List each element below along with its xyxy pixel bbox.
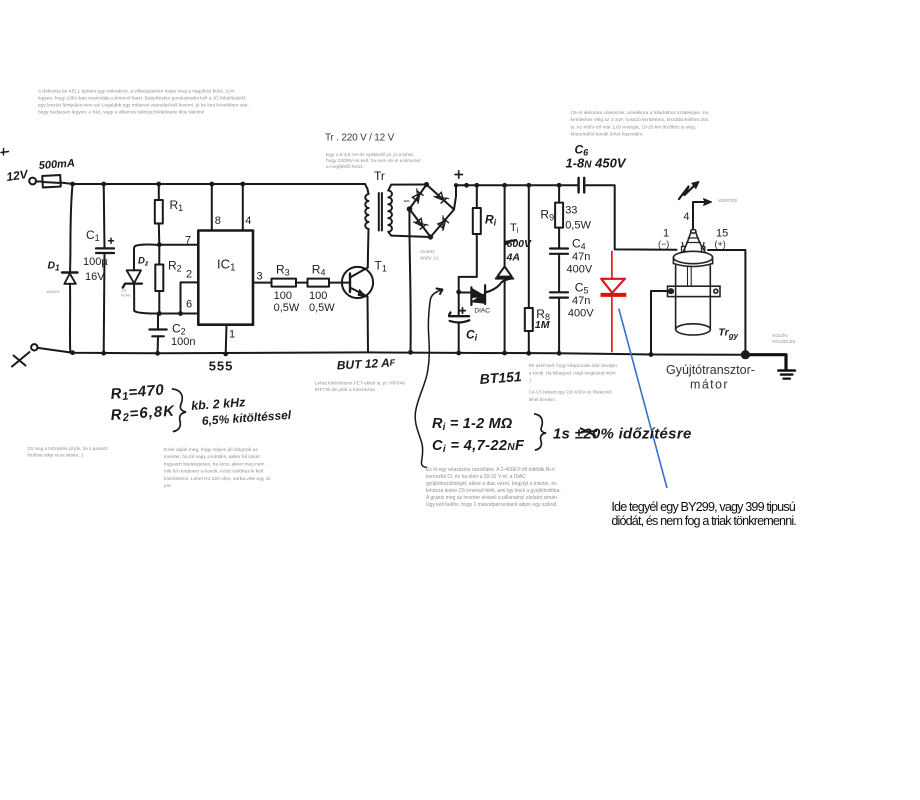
svg-text:A dobozba be KELL építeni egy: A dobozba be KELL építeni egy szikraközt…	[38, 89, 235, 95]
svg-text:Tr: Tr	[374, 169, 385, 183]
svg-text:1M: 1M	[535, 319, 550, 331]
svg-text:Ezek adják meg, hogy milyen jó: Ezek adják meg, hogy milyen jól dolgozik…	[164, 447, 258, 453]
svg-text:Motorindító kondit lehet haszn: Motorindító kondit lehet használni.	[571, 132, 644, 138]
svg-text:gyújtófeszültségét, akkor a di: gyújtófeszültségét, akkor a diac vezet, …	[426, 481, 557, 487]
svg-text:7: 7	[185, 235, 191, 247]
svg-text:1N4001: 1N4001	[46, 289, 61, 294]
svg-text:a kondi. Ha kihagyod, majd meg: a kondi. Ha kihagyod, majd megtudod miér…	[529, 371, 617, 376]
svg-text:400V: 400V	[567, 264, 593, 276]
svg-text:4: 4	[245, 215, 251, 227]
svg-text:47n: 47n	[572, 251, 590, 263]
svg-text:BT151: BT151	[479, 368, 522, 387]
svg-text:1s ±20% időzítésre: 1s ±20% időzítésre	[553, 426, 692, 443]
svg-text:Tr . 220 V / 12 V: Tr . 220 V / 12 V	[325, 133, 395, 144]
svg-text:tölti fel rendesen a kondit. A: tölti fel rendesen a kondit. Adott trafó…	[164, 469, 263, 475]
svg-text:Gyújtótransztor-: Gyújtótransztor-	[666, 363, 755, 377]
svg-text:100: 100	[274, 290, 292, 302]
svg-text:100n: 100n	[171, 336, 195, 348]
svg-text:legyen, hogy 10kV-ban maximálj: legyen, hogy 10kV-ban maximálja a kimenő…	[38, 95, 246, 102]
svg-text:diódát, és nem fog a triak tön: diódát, és nem fog a triak tönkremenni.	[611, 514, 796, 528]
svg-text:0,5W: 0,5W	[565, 219, 591, 231]
svg-text:KÜLÖN: KÜLÖN	[772, 333, 787, 338]
svg-text:R8 azért kell, hogy kikapcsolá: R8 azért kell, hogy kikapcsolás után kis…	[529, 363, 618, 368]
svg-text:fogyaszt feleslegesen, ha kics: fogyaszt feleslegesen, ha kicsi, akkor m…	[164, 461, 265, 467]
svg-text:500mA: 500mA	[38, 158, 75, 172]
svg-text:4148: 4148	[121, 293, 131, 298]
svg-text:16V: 16V	[85, 271, 105, 283]
svg-text:(+): (+)	[715, 239, 726, 249]
svg-text:Egy 1,6-3,5 VA-és nyáktrafó pl: Egy 1,6-3,5 VA-és nyáktrafó pl. jó a leh…	[326, 152, 414, 158]
svg-text:100: 100	[309, 290, 327, 302]
svg-text:Ez itt egy relaxációs oszcillá: Ez itt egy relaxációs oszcillátor. A 2-4…	[426, 467, 555, 473]
svg-text:kísérletezni. Lehet R1 220 ohm: kísérletezni. Lehet R1 220 ohm, sorba ve…	[164, 476, 271, 482]
svg-text:IRF740 de jobb a tranzisztor.: IRF740 de jobb a tranzisztor.	[315, 387, 376, 393]
svg-text:inverter, ha túl nagy a kitölt: inverter, ha túl nagy a kitöltés, akkor …	[164, 454, 260, 460]
svg-text:A graetz meg az inverter elvis: A graetz meg az inverter elviseli a pill…	[426, 495, 558, 501]
svg-text:8: 8	[215, 215, 221, 227]
svg-text:2: 2	[186, 269, 192, 281]
svg-text:47n: 47n	[572, 295, 590, 307]
svg-text:4: 4	[683, 211, 689, 223]
svg-text:KERÍTÉS: KERÍTÉS	[718, 198, 737, 203]
svg-text:600V 1A: 600V 1A	[420, 256, 439, 262]
svg-text:33: 33	[565, 205, 577, 217]
svg-text:mátor: mátor	[690, 378, 729, 392]
svg-text:Úgy kell belőni, hogy 1 másodp: Úgy kell belőni, hogy 1 másodpercenként …	[426, 501, 558, 508]
svg-text:3: 3	[257, 271, 263, 283]
svg-text:D1 meg a biztosíték jól jön, h: D1 meg a biztosíték jól jön, ha a parasz…	[28, 446, 109, 451]
svg-text:FÖLDELÉS: FÖLDELÉS	[772, 339, 795, 344]
svg-text:15: 15	[716, 228, 728, 240]
svg-text:a megfelelő feszt.: a megfelelő feszt.	[326, 164, 364, 170]
svg-text:100µ: 100µ	[83, 256, 108, 268]
svg-text:lehet berakni.: lehet berakni.	[529, 397, 556, 402]
svg-text:hogy 230/9V-os kell, ha nem ér: hogy 230/9V-os kell, ha nem éri el a kim…	[326, 158, 421, 164]
svg-text:0,5W: 0,5W	[274, 302, 300, 314]
svg-text:555: 555	[209, 359, 234, 374]
svg-text:lehúzza testre C6 innenső felé: lehúzza testre C6 innenső felét, ami így…	[426, 488, 561, 494]
svg-text:−: −	[403, 194, 410, 208]
svg-text:keresztül Ci, és ha elért a 30: keresztül Ci, és ha elért a 30-32 V-ot, …	[426, 474, 526, 480]
svg-text:Lehet kísérletezni FET-ekkel i: Lehet kísérletezni FET-ekkel is, pl. IRF…	[315, 381, 405, 387]
svg-text:kerítéshez elég az 1-2uF, hoss: kerítéshez elég az 1-2uF, hosszú kerítés…	[571, 117, 709, 123]
svg-text:pot.: pot.	[164, 483, 172, 489]
svg-text:0,5W: 0,5W	[309, 302, 335, 314]
svg-text:hogy nedvesen legyen. A ház, v: hogy nedvesen legyen. A ház, vagy a vill…	[38, 110, 204, 116]
svg-text:400V: 400V	[568, 308, 594, 320]
svg-text:C4-C5 helyett egy 22n 630V-os: C4-C5 helyett egy 22n 630V-os fóliakondi	[529, 390, 612, 395]
svg-text:fordítva rakja rá az aksira. :: fordítva rakja rá az aksira. :)	[28, 453, 84, 458]
svg-text:egy leszúrt fémpálca nem az! L: egy leszúrt fémpálca nem az! Legalább eg…	[38, 103, 249, 109]
svg-text:is. Az 400V-ról már 1,6J energ: is. Az 400V-ról már 1,6J energia, 10-20 …	[571, 124, 697, 130]
svg-text:Graetz: Graetz	[420, 249, 435, 255]
svg-text:1: 1	[663, 228, 669, 240]
svg-text:(−): (−)	[658, 239, 669, 249]
svg-text:C6-ot akkorára válasszuk, amek: C6-ot akkorára válasszuk, amekkora a fel…	[571, 110, 709, 116]
svg-text:DIAC: DIAC	[474, 308, 490, 315]
svg-text:Ide tegyél egy BY299, vagy 399: Ide tegyél egy BY299, vagy 399 tipusú	[611, 500, 795, 514]
svg-text:1-8N 450V: 1-8N 450V	[566, 156, 627, 171]
svg-text:1: 1	[229, 329, 235, 341]
svg-text:4A: 4A	[506, 252, 520, 264]
svg-text:6: 6	[186, 299, 192, 311]
